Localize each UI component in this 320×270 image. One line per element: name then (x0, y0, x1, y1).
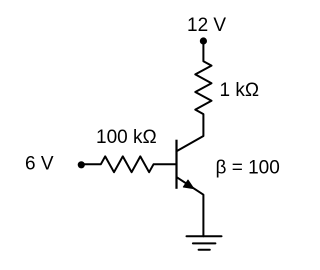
svg-text:6 V: 6 V (25, 154, 54, 175)
svg-text:12 V: 12 V (187, 15, 226, 36)
svg-text:100 kΩ: 100 kΩ (96, 127, 157, 148)
svg-text:β = 100: β = 100 (216, 158, 280, 179)
svg-text:1 kΩ: 1 kΩ (220, 80, 260, 101)
